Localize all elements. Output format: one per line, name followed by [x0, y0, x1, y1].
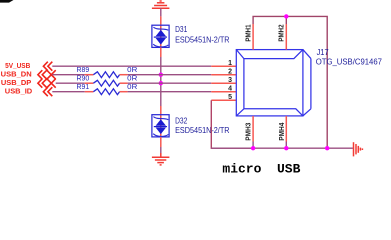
wire row3 right [128, 82, 212, 84]
junction dot PMH4 [284, 146, 288, 150]
junction dot PMH3 [251, 146, 255, 150]
ground right [354, 142, 363, 156]
junction dot PMH2 top [284, 14, 288, 18]
wire vertical net [160, 57, 162, 106]
svg-text:2: 2 [228, 68, 232, 75]
resistor R91 [85, 89, 128, 95]
wire row2 left [52, 74, 85, 76]
pin J17.4 [211, 91, 236, 93]
svg-text:1: 1 [228, 60, 232, 67]
wire row1 5V_USB [52, 65, 211, 67]
wire to gnd bottom [160, 147, 162, 153]
svg-text:0R: 0R [127, 82, 137, 91]
pin J17.3 [211, 82, 236, 84]
diode D31 [152, 25, 169, 47]
junction dot row3 [159, 81, 163, 85]
svg-text:PMH4: PMH4 [279, 123, 286, 141]
svg-text:PMH2: PMH2 [279, 24, 286, 41]
svg-text:USB_DP: USB_DP [1, 78, 31, 87]
svg-text:R91: R91 [77, 82, 90, 91]
wire pin5 down [211, 100, 253, 148]
junction dot row2 [159, 73, 163, 77]
wire row4 right [128, 91, 212, 93]
pin J17.5 [211, 99, 236, 101]
svg-text:OTG_USB/C91467: OTG_USB/C91467 [316, 57, 383, 67]
wire gnd-top to D31 [160, 8, 162, 16]
wire row2 right [128, 74, 212, 76]
svg-text:PMH3: PMH3 [246, 123, 253, 141]
pin D31 top [160, 16, 162, 25]
ground GND bottom [152, 153, 170, 165]
resistor R90 [85, 80, 128, 86]
connector J17 body [236, 50, 311, 116]
svg-text:5: 5 [228, 94, 232, 101]
svg-text:ESD5451N-2/TR: ESD5451N-2/TR [175, 35, 229, 45]
pin PMH1 [252, 24, 254, 50]
svg-text:D32: D32 [175, 116, 187, 126]
junction dot right [325, 146, 329, 150]
border fragment top-left [0, 0, 14, 3]
svg-text:3: 3 [228, 77, 232, 84]
pin PMH3 [252, 116, 254, 142]
svg-text:D31: D31 [175, 24, 187, 34]
pin J17.2 [211, 74, 236, 76]
wire row3 left [56, 82, 85, 84]
wire row4 left [52, 91, 85, 93]
diode D32 [152, 115, 169, 137]
pin PMH4 [285, 116, 287, 142]
svg-text:USB_ID: USB_ID [5, 87, 33, 96]
svg-text:PMH1: PMH1 [246, 24, 253, 41]
svg-text:ESD5451N-2/TR: ESD5451N-2/TR [175, 125, 229, 135]
pin J17.1 [211, 65, 236, 67]
ground GND top [152, 1, 170, 8]
svg-text:micro USB: micro USB [222, 162, 300, 177]
pin D31 bottom [160, 47, 162, 57]
pin D32 top [160, 106, 162, 115]
pin PMH2 [285, 24, 287, 50]
pin D32 bottom [160, 137, 162, 147]
svg-text:4: 4 [228, 85, 232, 92]
resistor R89 [85, 72, 128, 78]
wire PMH top to right [253, 16, 327, 148]
wire bottom gnd bus [211, 147, 353, 149]
svg-text:J17: J17 [317, 47, 329, 57]
